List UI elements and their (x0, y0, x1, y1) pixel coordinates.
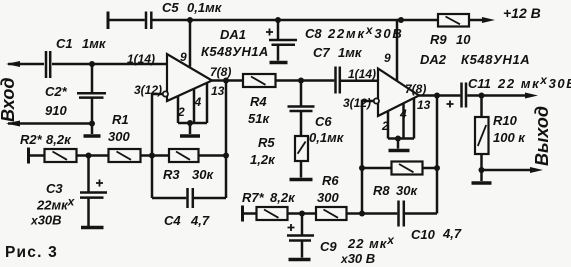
node junction output/feedback DA2 (434, 93, 440, 99)
wire C11 to output arrow (467, 94, 527, 97)
node junction R4/C6/C7 (298, 78, 304, 84)
resistor R3 (169, 149, 199, 162)
svg-text:C5: C5 (162, 0, 179, 15)
wire pins 2-4-13 bar DA2 (388, 137, 414, 140)
svg-text:4,7: 4,7 (190, 213, 210, 228)
node junction R8 left (359, 165, 365, 171)
wire rail jog to DA2 pin9 top (397, 19, 401, 22)
resistor R6 (316, 207, 347, 220)
svg-text:300: 300 (317, 190, 339, 205)
svg-text:300: 300 (108, 129, 130, 144)
wire R1 to inverting node (141, 154, 153, 157)
svg-text:7(8): 7(8) (405, 82, 426, 96)
svg-text:51к: 51к (248, 111, 270, 126)
wire pin 13 DA2 (413, 98, 416, 139)
wire C3 branch (87, 156, 90, 192)
wire terminal to C5 (108, 19, 145, 22)
svg-text:10: 10 (456, 32, 471, 47)
svg-text:R5: R5 (258, 135, 275, 150)
wire pin 2 DA1 (177, 96, 180, 123)
wire output ground arrow (482, 169, 533, 172)
capacitor C9 (301, 214, 304, 235)
wire pin 4 DA2 (402, 103, 405, 138)
node junction output/feedback DA1 (223, 78, 229, 84)
ground C2 branch (84, 134, 101, 137)
svg-text:8,2к: 8,2к (270, 190, 296, 205)
svg-text:C9: C9 (320, 239, 337, 254)
svg-text:DA2: DA2 (420, 52, 447, 67)
svg-text:х30В: х30В (30, 213, 62, 228)
wire C1 to DA1 input (52, 63, 167, 66)
resistor R7 (257, 207, 288, 220)
svg-text:30к: 30к (396, 183, 418, 198)
svg-text:R9: R9 (430, 32, 447, 47)
node terminal C5 (107, 12, 110, 30)
svg-text:0,1мк: 0,1мк (187, 0, 223, 15)
wire feedback vertical DA1 (225, 81, 228, 199)
node terminal R2 (27, 148, 30, 164)
svg-text:9: 9 (384, 51, 391, 65)
ground DA2 pins (389, 149, 410, 152)
svg-text:R2*: R2* (20, 132, 43, 147)
wire C7 to DA2 (341, 80, 378, 83)
wire R3 to feedback (199, 154, 227, 157)
op-amp U1 DA1 (167, 54, 212, 101)
svg-text:C1: C1 (56, 36, 73, 51)
svg-text:3(12): 3(12) (134, 83, 162, 97)
svg-text:R3: R3 (163, 167, 180, 182)
svg-text:К548УН1А: К548УН1А (201, 44, 269, 59)
wire R9 to +12V arrow (469, 19, 484, 22)
resistor R1 (109, 149, 141, 162)
svg-text:0,1мк: 0,1мк (309, 130, 345, 145)
svg-text:1мк: 1мк (82, 36, 107, 51)
svg-text:1мк: 1мк (338, 45, 363, 60)
capacitor C6 (288, 105, 315, 108)
svg-text:C4: C4 (164, 213, 181, 228)
svg-text:2: 2 (381, 119, 389, 133)
capacitor C1 (45, 51, 48, 78)
ground DA1 pins (180, 134, 200, 137)
node junction R7/R6/C9 (299, 211, 305, 217)
wire DA1 output (212, 79, 243, 82)
wire pin 9 DA1 (189, 20, 192, 67)
svg-text:100 к: 100 к (493, 130, 526, 145)
svg-text:R8: R8 (373, 183, 390, 198)
svg-text:30к: 30к (192, 167, 214, 182)
svg-text:DA1: DA1 (220, 27, 246, 42)
svg-text:13: 13 (417, 98, 431, 112)
wire DA2 output (419, 94, 460, 97)
svg-text:910: 910 (45, 103, 67, 118)
node input ground arrow (6, 121, 20, 127)
wire R2 to R1 (77, 154, 109, 157)
wire pin 13 DA1 (206, 83, 209, 124)
resistor R10 (480, 96, 483, 118)
capacitor C11 (460, 83, 463, 108)
svg-text:С8: С8 (305, 26, 322, 41)
wire feedback vertical DA2 (436, 96, 439, 214)
ground C8 (270, 61, 288, 64)
wire node to R3 (152, 154, 169, 157)
svg-text:Выход: Выход (532, 106, 552, 166)
svg-text:9: 9 (180, 50, 187, 64)
svg-text:1(14): 1(14) (127, 52, 155, 66)
wire supply rail (153, 19, 439, 22)
ground R5 (290, 178, 313, 181)
svg-text:7(8): 7(8) (210, 65, 231, 79)
svg-text:4,7: 4,7 (442, 226, 462, 241)
ground R10 (472, 181, 492, 184)
wire C2 branch upper (91, 64, 94, 92)
wire C2 lower (91, 99, 94, 135)
svg-text:1,2к: 1,2к (250, 152, 276, 167)
wire R7 to node (288, 212, 317, 215)
svg-text:1(14): 1(14) (348, 67, 376, 81)
node junction R2/R1/C3 (86, 153, 92, 159)
node junction R6/C10 (359, 211, 365, 217)
resistor R9 (438, 14, 469, 27)
svg-text:22 мкх30В: 22 мкх30В (497, 73, 571, 91)
svg-text:13: 13 (211, 84, 225, 98)
svg-text:C3: C3 (46, 181, 63, 196)
ground C3 (81, 226, 104, 229)
svg-text:R4: R4 (250, 94, 267, 109)
svg-text:С7: С7 (313, 45, 330, 60)
svg-text:3(12): 3(12) (343, 96, 371, 110)
wire R6 to DA2 input node (347, 212, 363, 215)
capacitor C5 (145, 12, 148, 30)
svg-text:2: 2 (177, 105, 185, 119)
wire node down to C6 (300, 81, 303, 106)
svg-text:х30 В: х30 В (340, 251, 375, 266)
svg-text:22мкх30В: 22мкх30В (327, 23, 404, 41)
svg-text:Рис. 3: Рис. 3 (5, 244, 58, 261)
capacitor C7 (334, 67, 337, 94)
svg-text:8,2к: 8,2к (46, 132, 72, 147)
svg-text:4: 4 (399, 107, 407, 121)
wire terminal to R2 (29, 154, 45, 157)
wire terminal to R7 (243, 212, 257, 215)
wire inverting input DA1 (152, 94, 163, 198)
node junction fb/R1 (149, 153, 155, 159)
wire input ground line (8, 122, 92, 125)
svg-text:4: 4 (194, 95, 202, 109)
svg-text:К548УН1А: К548УН1А (461, 52, 530, 67)
svg-text:R6: R6 (322, 173, 339, 188)
resistor R2 (45, 149, 77, 162)
svg-text:C10: C10 (411, 227, 436, 242)
op-amp U2 DA2 (378, 69, 419, 117)
resistor R5 (295, 136, 308, 161)
capacitor C8 (277, 20, 280, 39)
wire pin 4 DA1 (193, 88, 196, 123)
resistor R4 (243, 74, 276, 87)
svg-text:C2*: C2* (45, 84, 68, 99)
capacitor C2 (77, 92, 106, 95)
node terminal R7 (241, 206, 244, 222)
capacitor C4 (152, 197, 186, 200)
node input arrow (6, 61, 20, 67)
resistor R8 (362, 167, 392, 170)
svg-text:R10: R10 (493, 113, 518, 128)
wire R4 to node (276, 79, 302, 82)
node junction C1/C2 (89, 61, 95, 67)
svg-text:С6: С6 (315, 114, 332, 129)
wire pins 2-4-13 bar DA1 (178, 122, 207, 125)
ground C9 (289, 258, 311, 261)
capacitor C3 (80, 191, 107, 194)
wire inverting input DA2 (362, 101, 374, 214)
wire pin 9 DA2 (396, 20, 399, 81)
svg-text:Вход: Вход (0, 78, 18, 122)
wire pin 2 DA2 (387, 111, 390, 139)
capacitor C10 (362, 212, 397, 215)
wire node to C7 (301, 79, 334, 82)
wire C3 lower (87, 199, 90, 227)
node junction R10/output gnd arrow (479, 167, 485, 173)
svg-text:+12 В: +12 В (503, 5, 541, 21)
svg-text:R1: R1 (112, 112, 129, 127)
svg-text:R7*: R7* (242, 190, 265, 205)
wire input signal line (8, 63, 44, 66)
svg-text:C11: C11 (468, 76, 491, 91)
node junction input-gnd/C2 (89, 121, 95, 127)
